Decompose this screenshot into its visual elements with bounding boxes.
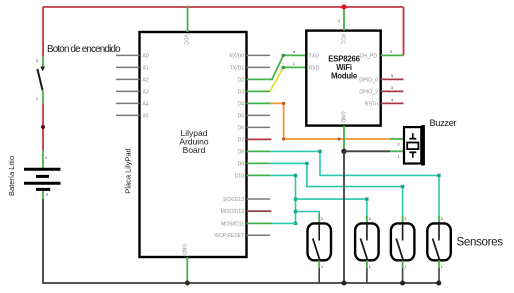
svg-text:D9: D9 [238, 161, 245, 167]
ESP8266 module U2 [306, 31, 380, 126]
junction: LilyPad GND on ground rail [185, 281, 190, 286]
pin stub A0 [116, 54, 140, 56]
wire: top power rail (red) [43, 6, 404, 8]
wire: battery - down to ground rail (dark) [43, 199, 439, 283]
buzzer BZ1 [404, 125, 425, 166]
junction: GND net [341, 149, 346, 154]
svg-text:Boton de encendido: Boton de encendido [47, 44, 121, 55]
wire: D8 green stub [247, 150, 271, 152]
switch S1 (Boton de encendido) [36, 57, 45, 104]
svg-text:2: 2 [404, 217, 406, 221]
wire: buzzer pin2 stub (green) [390, 138, 404, 140]
wire: D10 green stub [247, 174, 271, 176]
svg-text:A3: A3 [143, 89, 149, 95]
svg-text:3: 3 [36, 59, 38, 63]
wire: RSTn stub (red dangling) [381, 102, 404, 104]
pin stub D6 [247, 126, 271, 128]
wire: MOSI/D11 teal to junction column [272, 222, 296, 224]
svg-text:D3: D3 [238, 89, 245, 95]
svg-text:A1: A1 [143, 65, 149, 71]
wire: sensor4 bottom to ground rail (dark) [438, 268, 440, 283]
junction: ESP VCC on top rail (red dot) [342, 5, 347, 10]
wire: sensor3 top stub (green) [402, 216, 404, 223]
svg-text:5: 5 [391, 74, 393, 78]
wire: branch to sensor2 (teal) [296, 199, 367, 217]
wire: D4 green stub [247, 102, 271, 104]
wire: ESP VCC to top rail (green) [343, 7, 345, 31]
svg-text:8: 8 [293, 50, 295, 54]
wire: LilyPad GND to ground rail (green) [186, 257, 188, 283]
wire: sensor2 top stub (green) [366, 216, 368, 223]
svg-text:A4: A4 [143, 101, 149, 107]
svg-text:1: 1 [441, 265, 443, 269]
pin stub D7 (red dangling) [247, 138, 272, 140]
pin stub A5 [116, 114, 140, 116]
svg-text:D6: D6 [238, 125, 245, 131]
battery plate short [36, 175, 49, 178]
svg-text:2: 2 [398, 143, 400, 147]
svg-text:GPIO_0: GPIO_0 [359, 77, 378, 83]
LilyPad Arduino board U1 [116, 32, 271, 257]
wire: D9 to sensor3 (teal) [269, 163, 403, 217]
bend dot orange [282, 102, 285, 105]
junction dot [294, 197, 297, 200]
sensor SW1 [308, 217, 332, 283]
svg-text:1: 1 [321, 265, 323, 269]
pin stub A1 [116, 66, 140, 68]
wire: switch bottom pin stub (green) [42, 91, 44, 104]
pin stub A3 [116, 90, 140, 92]
wire: switch to battery (red) [42, 104, 44, 151]
battery plate short bottom [36, 188, 50, 191]
svg-text:TXD: TXD [309, 53, 320, 59]
bend dot [437, 174, 440, 177]
battery plate long top [24, 168, 61, 171]
bend dot orange2 [282, 137, 285, 140]
wire: GPIO_2 stub (red dangling) [381, 90, 404, 92]
wire: D4 to buzzer pin2 (orange) [271, 103, 391, 139]
wire: buzzer pin1 stub (green) [390, 150, 404, 152]
wire: D3 green stub [247, 90, 271, 92]
pin stub MISO/D12 (dark red dangling) [247, 210, 272, 212]
wire: switch top pin stub (green) [42, 57, 44, 69]
pin stub A2 [116, 78, 140, 80]
buzzer bottom terminal [409, 151, 416, 153]
svg-text:1: 1 [338, 19, 340, 23]
sensor SW3 [391, 217, 415, 286]
svg-text:D4: D4 [238, 101, 245, 107]
svg-text:GPIO_2: GPIO_2 [359, 89, 378, 95]
svg-text:2: 2 [46, 193, 48, 197]
svg-text:1: 1 [404, 265, 406, 269]
bend dot [294, 174, 297, 177]
wire: D9 green stub [247, 162, 270, 164]
wire: D10 teal to junction column [270, 175, 296, 223]
buzzer top terminal [412, 133, 414, 138]
wire: LilyPad VCC to top rail (green) [187, 6, 189, 33]
wire: D8 to sensor4 (teal) [270, 151, 439, 217]
svg-text:2: 2 [441, 217, 443, 221]
buzzer piezo element [407, 143, 418, 150]
wire: sensor1 bottom to ground rail (dark) [318, 268, 320, 283]
bend dot [318, 150, 321, 153]
wire: sensor1 bottom stub (green) [318, 260, 320, 268]
wire: GND junction to buzzer pin1 (dark) [344, 150, 390, 152]
wire: branch to sensor1 (teal) [296, 212, 320, 218]
buzzer right bar [421, 125, 425, 166]
junction: main vertical on ground rail [342, 281, 347, 286]
svg-text:A2: A2 [143, 77, 149, 83]
pin stub RX/D0 [247, 54, 271, 56]
svg-text:RX/D0: RX/D0 [229, 53, 244, 59]
junction dot [294, 210, 297, 213]
svg-text:MISO/D12: MISO/D12 [221, 209, 245, 215]
wire: battery - stub (green) [42, 191, 44, 199]
svg-text:1: 1 [36, 97, 38, 101]
svg-text:2: 2 [369, 217, 371, 221]
pin stub D5 [247, 114, 271, 116]
wire: GPIO_0 stub (red dangling) [381, 78, 404, 80]
svg-text:4: 4 [391, 98, 393, 102]
wire: sensor4 top stub (green) [438, 216, 440, 223]
bend dot [401, 185, 404, 188]
svg-text:GND: GND [339, 111, 345, 123]
junction: sensor3 on ground rail [400, 281, 405, 286]
pin stub A4 [116, 102, 140, 104]
svg-text:Sensores: Sensores [457, 236, 504, 249]
junction dot [294, 222, 297, 225]
svg-text:1: 1 [398, 155, 400, 159]
wire: sensor2 bottom to ground rail (dark) [366, 268, 368, 283]
wire: red vertical from rail to switch [42, 7, 44, 57]
pin stub ISCP RESET [247, 234, 271, 236]
svg-text:D8: D8 [238, 149, 245, 155]
sensor SW2 [355, 217, 379, 283]
wire: D2 to ESP TXD (green) [247, 55, 307, 79]
sensor SW4 [427, 217, 451, 286]
bend dot [305, 162, 308, 165]
wire: ESP GND down (green) [343, 126, 345, 152]
segment joint on orange wire [338, 138, 341, 141]
wire: CH_PD to top rail (red) [403, 7, 405, 55]
junction: sensor4 on ground rail [436, 281, 441, 286]
svg-text:1: 1 [293, 62, 295, 66]
bend dot D3 wire [282, 66, 285, 69]
svg-text:2: 2 [321, 217, 323, 221]
svg-text:D10: D10 [235, 173, 244, 179]
svg-text:1: 1 [45, 156, 47, 160]
svg-text:RXD: RXD [309, 65, 320, 71]
wire: CH_PD stub (green) [381, 54, 404, 56]
svg-text:D2: D2 [238, 77, 245, 83]
svg-text:CH_PD: CH_PD [360, 53, 378, 59]
svg-text:VCC: VCC [182, 34, 188, 45]
bend dot D2 wire [282, 54, 285, 57]
switch lever [37, 69, 42, 91]
svg-text:Module: Module [331, 71, 358, 80]
wire: sensor3 bottom stub (green) [402, 260, 404, 268]
svg-text:MOSI/D11: MOSI/D11 [221, 221, 244, 227]
battery plate long bottom [24, 182, 61, 185]
wire: battery + stub (green) [42, 151, 44, 169]
svg-text:A5: A5 [143, 113, 149, 119]
junction on red wire [41, 125, 45, 129]
svg-text:Placa LilyPad: Placa LilyPad [124, 148, 133, 193]
switch top contact [40, 67, 45, 72]
wire: D3 to ESP RXD (yellow diagonal) [270, 67, 283, 91]
svg-text:RSTn: RSTn [365, 101, 378, 107]
svg-text:1: 1 [369, 265, 371, 269]
svg-text:Board: Board [183, 145, 206, 155]
wire: sensor1 top stub (green) [318, 214, 320, 223]
wire: GND vertical down to ground rail (dark) [343, 151, 345, 283]
svg-text:TX/D1: TX/D1 [230, 65, 244, 71]
bend dot [365, 197, 368, 200]
pin stub SCK/D13 [247, 198, 271, 200]
wire: sensor3 bottom to ground rail (dark) [402, 268, 404, 283]
battery BAT1 (Bateria Litio) [24, 151, 61, 200]
svg-text:VCC: VCC [339, 34, 345, 45]
svg-text:3: 3 [391, 86, 393, 90]
svg-text:D5: D5 [238, 113, 245, 119]
svg-text:Batería Litio: Batería Litio [7, 156, 16, 196]
svg-text:A0: A0 [143, 53, 149, 59]
pin stub TX/D1 [247, 66, 271, 68]
svg-text:D7: D7 [238, 137, 245, 143]
wire: ESP RXD stub (green) [283, 66, 306, 68]
svg-text:ISCP RESET: ISCP RESET [214, 233, 244, 239]
wire: sensor4 bottom stub (green) [438, 260, 440, 268]
svg-text:GND: GND [180, 244, 186, 256]
wire: sensor2 bottom stub (green) [366, 260, 368, 268]
wire: MOSI/D11 green stub [247, 222, 272, 224]
svg-text:3: 3 [390, 50, 392, 54]
svg-text:SCK/D13: SCK/D13 [223, 197, 244, 203]
svg-text:Buzzer: Buzzer [430, 118, 457, 128]
